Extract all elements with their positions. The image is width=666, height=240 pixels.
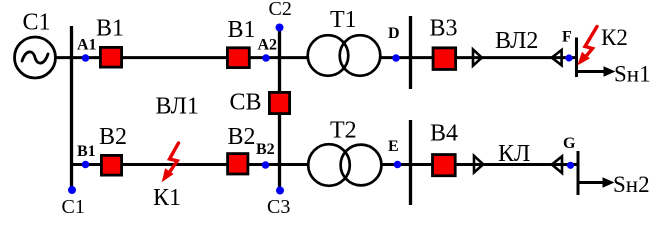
node F	[565, 54, 572, 61]
svg-text:С1: С1	[23, 10, 51, 36]
svg-text:В1: В1	[96, 16, 124, 42]
bus middle (vertical busbar)	[278, 27, 281, 188]
svg-text:F: F	[562, 29, 572, 46]
node E	[394, 161, 402, 169]
svg-text:B2: B2	[256, 141, 275, 158]
svg-text:A2: A2	[258, 37, 278, 54]
node C1 bottom	[68, 186, 76, 194]
node A1	[82, 54, 90, 62]
svg-text:D: D	[388, 25, 400, 42]
bus right bottom (vertical busbar)	[409, 120, 412, 205]
breaker B4	[433, 155, 456, 176]
breaker B3	[433, 48, 456, 70]
node B2	[262, 161, 270, 169]
fault K1 lightning	[162, 143, 179, 182]
node C2 top	[276, 24, 284, 32]
svg-text:В2: В2	[228, 124, 256, 150]
svg-text:В2: В2	[99, 124, 127, 150]
svg-text:С3: С3	[267, 196, 290, 218]
bus left (vertical busbar)	[70, 26, 73, 188]
load bar 2	[577, 151, 580, 195]
node A2	[262, 54, 270, 62]
svg-text:С2: С2	[269, 0, 292, 20]
generator C1	[15, 37, 56, 78]
svg-text:E: E	[388, 138, 399, 155]
bus right top (vertical busbar)	[409, 16, 412, 89]
svg-text:Sн1: Sн1	[614, 62, 651, 87]
svg-text:A1: A1	[77, 37, 97, 54]
wire row1 right segment	[381, 56, 577, 59]
wire row2 left segment	[71, 163, 308, 166]
node D	[392, 54, 400, 62]
svg-text:В1: В1	[228, 17, 256, 43]
breaker B1 second	[227, 48, 249, 68]
node B1	[82, 161, 90, 169]
svg-text:Sн2: Sн2	[613, 172, 650, 197]
line-arrow triangle right row2	[474, 156, 483, 173]
breaker B2 first	[101, 155, 121, 175]
svg-text:К1: К1	[153, 185, 181, 211]
svg-text:В3: В3	[430, 16, 458, 42]
svg-text:Т1: Т1	[330, 7, 357, 33]
svg-text:В4: В4	[430, 121, 458, 147]
transformer T1	[308, 35, 381, 76]
svg-text:СВ: СВ	[230, 90, 262, 116]
line-arrow triangle right row1	[473, 50, 482, 66]
svg-text:ВЛ1: ВЛ1	[156, 94, 199, 120]
node G	[567, 162, 574, 169]
fault K2 lightning	[577, 27, 597, 66]
breaker B1 first	[100, 47, 121, 67]
line-arrow triangle left row1	[552, 50, 562, 65]
load arrow Sn2	[578, 177, 615, 188]
line-arrow triangle left row2	[552, 156, 562, 173]
node C3 bottom	[276, 187, 284, 195]
svg-text:Т2: Т2	[330, 118, 357, 144]
load arrow Sn1	[577, 66, 616, 77]
transformer T2	[308, 144, 381, 186]
breaker CB sectional	[269, 92, 289, 113]
load bar 1	[575, 38, 578, 78]
svg-text:B1: B1	[77, 143, 96, 160]
wire row2 right segment	[382, 163, 578, 166]
svg-text:ВЛ2: ВЛ2	[495, 28, 538, 54]
wire row1 left segment	[56, 56, 308, 59]
svg-text:G: G	[563, 135, 576, 152]
svg-text:К2: К2	[601, 25, 628, 50]
svg-text:КЛ: КЛ	[498, 141, 530, 167]
breaker B2 second	[228, 154, 248, 174]
svg-text:С1: С1	[62, 196, 85, 218]
